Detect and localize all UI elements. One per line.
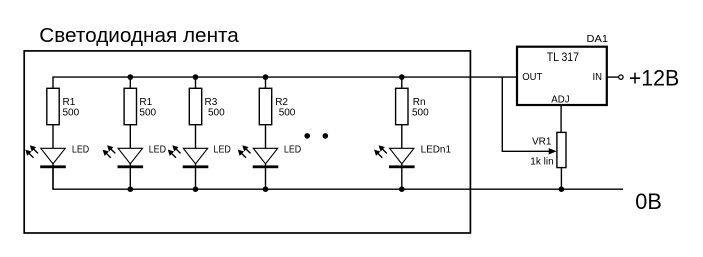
resistor R3 bbox=[189, 74, 225, 189]
resistor Rn bbox=[396, 74, 430, 189]
svg-text:R2: R2 bbox=[275, 97, 288, 108]
wire: VR1 bottom to 0V bus bbox=[560, 168, 562, 190]
resistor R1 bbox=[47, 88, 80, 189]
wiper arrowhead bbox=[549, 148, 557, 154]
resistor R2 bbox=[259, 74, 296, 189]
svg-text:LED: LED bbox=[72, 144, 89, 155]
potentiometer VR1 bbox=[530, 132, 566, 167]
svg-text:500: 500 bbox=[412, 108, 429, 119]
svg-text:R1: R1 bbox=[63, 97, 76, 108]
svg-text:0В: 0В bbox=[635, 189, 662, 214]
svg-text:R1: R1 bbox=[139, 97, 152, 108]
wire: bottom 0V bus bbox=[53, 168, 623, 189]
ellipsis dots bbox=[304, 133, 310, 139]
svg-text:LED: LED bbox=[149, 144, 166, 155]
svg-text:R3: R3 bbox=[205, 97, 218, 108]
node +12V terminal circle bbox=[619, 75, 623, 79]
wire: IN pin to +12V terminal bbox=[607, 76, 618, 78]
svg-text:LEDn1: LEDn1 bbox=[421, 144, 452, 155]
svg-text:IN: IN bbox=[593, 72, 603, 83]
svg-text:+12В: +12В bbox=[629, 66, 680, 91]
svg-text:500: 500 bbox=[208, 108, 225, 119]
LED 1 bbox=[25, 144, 89, 168]
svg-text:VR1: VR1 bbox=[532, 137, 552, 148]
svg-text:DA1: DA1 bbox=[587, 33, 609, 45]
svg-text:LED: LED bbox=[214, 144, 231, 155]
svg-text:500: 500 bbox=[139, 108, 156, 119]
LED strip box bbox=[24, 51, 470, 233]
resistor R1 (second) bbox=[124, 74, 156, 189]
svg-text:500: 500 bbox=[279, 108, 296, 119]
svg-text:500: 500 bbox=[63, 108, 80, 119]
LED 2 bbox=[103, 144, 166, 192]
svg-text:1k lin: 1k lin bbox=[530, 157, 553, 168]
wire: ADJ pin down to VR1 bbox=[560, 105, 562, 132]
svg-text:ADJ: ADJ bbox=[551, 94, 569, 105]
wire: OUT bus tap down to VR1 wiper bbox=[502, 77, 550, 151]
svg-text:Светодиодная лента: Светодиодная лента bbox=[39, 24, 239, 47]
svg-text:Rn: Rn bbox=[413, 97, 426, 108]
wire: top bus from R1 to OUT pin bbox=[53, 77, 517, 88]
junction at 0V bus bbox=[559, 186, 565, 192]
LED n1 bbox=[374, 144, 451, 192]
svg-text:TL 317: TL 317 bbox=[547, 52, 579, 64]
LED 3 bbox=[168, 144, 231, 192]
regulator DA1: TL 317 box bbox=[517, 33, 608, 106]
LED 4 bbox=[238, 144, 301, 192]
svg-text:LED: LED bbox=[284, 144, 301, 155]
svg-text:OUT: OUT bbox=[522, 72, 542, 83]
